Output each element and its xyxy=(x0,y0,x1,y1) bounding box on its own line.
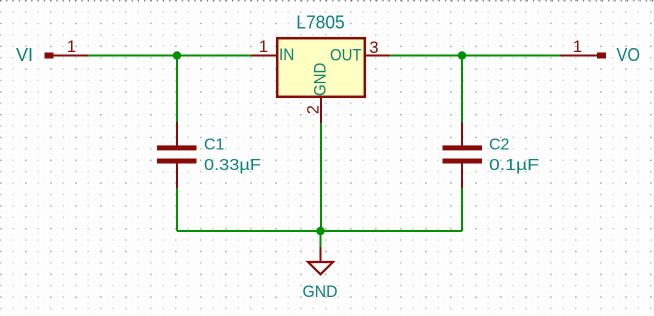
wire node A to U1 pin 1 xyxy=(177,55,251,57)
wire node B down to C2 xyxy=(461,56,463,123)
wire C2 down to bottom rail xyxy=(461,188,463,231)
svg-text:1: 1 xyxy=(259,38,268,56)
svg-text:C2: C2 xyxy=(489,137,510,154)
wire C1 down to bottom rail xyxy=(176,188,178,231)
wire bottom rail C1 to C2 xyxy=(177,230,462,232)
svg-text:GND: GND xyxy=(303,282,338,301)
svg-text:L7805: L7805 xyxy=(296,13,345,33)
regulator U1 L7805 body xyxy=(277,38,365,97)
capacitor C1 top lead xyxy=(176,122,178,146)
svg-text:1: 1 xyxy=(67,38,76,56)
capacitor C2 plates xyxy=(443,145,483,163)
svg-text:VI: VI xyxy=(16,45,33,65)
ground symbol lead xyxy=(320,247,322,262)
svg-text:1: 1 xyxy=(573,38,582,56)
regulator U1 pin 1 lead xyxy=(251,55,277,57)
capacitor C1 bottom lead xyxy=(176,164,178,189)
top edge tick row xyxy=(0,0,654,2)
svg-text:IN: IN xyxy=(279,45,294,64)
svg-text:C1: C1 xyxy=(204,137,225,154)
wire U1 pin 3 to node B xyxy=(390,55,462,57)
junction node GND rail xyxy=(316,227,324,235)
svg-text:3: 3 xyxy=(369,39,378,57)
svg-text:OUT: OUT xyxy=(330,46,362,65)
wire junction to ground symbol xyxy=(320,231,322,247)
regulator U1 pin 3 lead xyxy=(365,55,390,57)
ground symbol triangle xyxy=(308,262,333,274)
regulator U1 pin 2 lead xyxy=(320,97,322,123)
wire node B to VO xyxy=(462,55,560,57)
junction node B xyxy=(458,51,466,59)
terminal VI pin (red lead with dangling square) xyxy=(45,53,89,59)
svg-text:0.33µF: 0.33µF xyxy=(204,157,261,174)
capacitor C2 top lead xyxy=(461,122,463,146)
svg-text:GND: GND xyxy=(311,63,330,97)
wire U1 pin 2 down to bottom rail xyxy=(320,123,322,231)
wire node A down to C1 xyxy=(176,56,178,123)
wire VI to node A xyxy=(88,55,177,57)
capacitor C2 bottom lead xyxy=(461,164,463,189)
svg-text:2: 2 xyxy=(304,105,322,114)
terminal VO pin (red lead with dangling square) xyxy=(560,53,606,59)
capacitor C1 plates xyxy=(157,145,197,163)
svg-text:0.1µF: 0.1µF xyxy=(489,157,539,174)
svg-text:VO: VO xyxy=(617,45,641,65)
junction node A xyxy=(173,51,181,59)
